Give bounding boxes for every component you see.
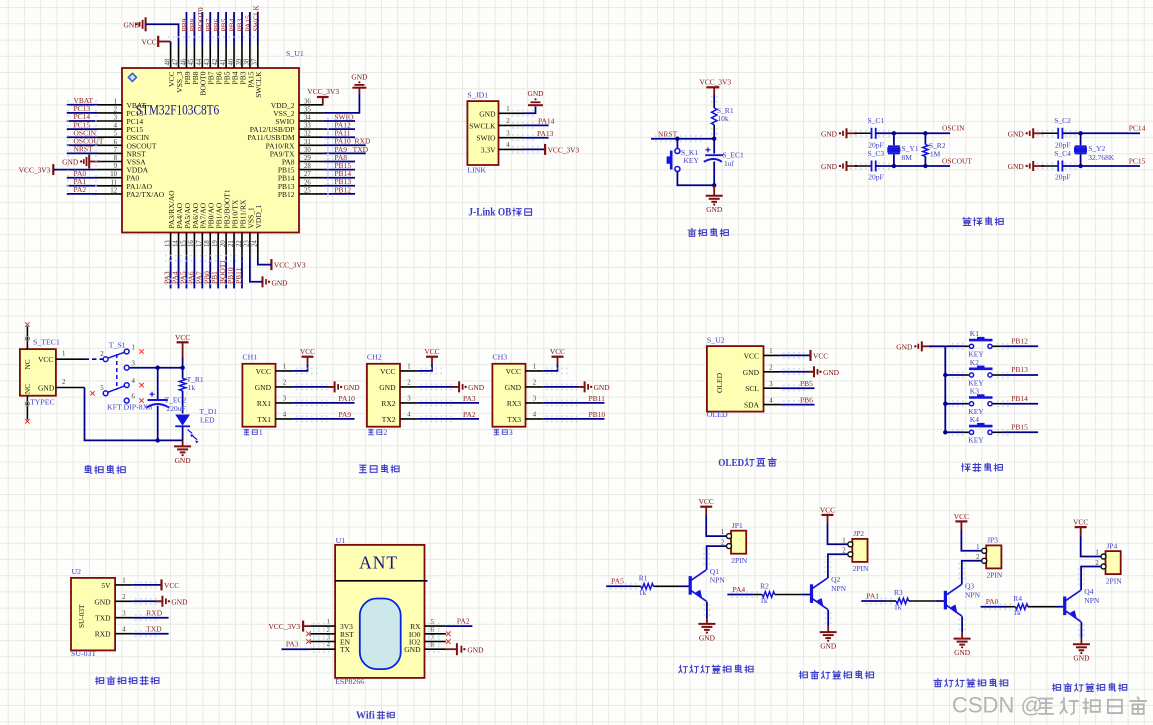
svg-text:1: 1 [407,364,410,371]
svg-text:PC15: PC15 [1129,156,1146,165]
svg-text:PB5: PB5 [800,379,813,388]
capacitor S_C1 20pF [855,132,872,134]
wire R2 to base [775,594,802,596]
svg-text:10k: 10k [717,114,729,123]
svg-text:S_C2: S_C2 [1054,116,1071,125]
svg-text:13: 13 [164,240,171,247]
pin 47 VSS_3 [178,45,180,69]
pin 29 PA8 [299,161,323,163]
svg-text:OLED: OLED [718,458,744,469]
svg-text:4: 4 [122,627,126,634]
designator serial label 2 [368,429,373,434]
wire VSS_1 [250,258,263,282]
wire net PB5 [225,12,227,45]
svg-text:OLED: OLED [715,372,724,393]
ic S_U1 STM32F103C8T6 body [122,68,299,233]
pin 41 PB5 [225,45,227,69]
svg-text:SWIO: SWIO [476,134,496,143]
title voice recognition module [96,677,104,684]
svg-text:21: 21 [228,240,235,247]
svg-text:1: 1 [506,106,509,113]
pin 4 TX3 [526,418,544,420]
pin 23 VSS_1 [249,233,251,259]
pin 37 SWCLK [257,45,259,69]
svg-text:PA4: PA4 [733,585,746,594]
svg-text:2: 2 [100,351,104,358]
pin 3 SCL [764,387,781,389]
wire PC15 ext [1129,165,1141,167]
wire net PB3 [241,12,243,45]
svg-text:GND: GND [896,342,913,351]
wire net PA9 [293,418,354,420]
pin 14 PA4/AO [178,233,180,259]
crystal S_Y2 32.768K [1080,133,1082,145]
svg-text:VCC: VCC [820,505,835,514]
no connect X EN [306,639,311,644]
wire pin3 to VCC node [129,367,182,369]
ground GND CH3 [578,386,585,388]
pin 8 VSSA [98,161,122,163]
wire net PA6 [193,258,195,288]
svg-text:44: 44 [196,58,203,65]
wire net SWCLK [257,12,259,45]
wire R3 to base [909,600,936,602]
svg-text:GND: GND [821,162,838,171]
no connect X pin6 [139,398,143,402]
svg-text:5: 5 [431,619,435,626]
wire VCC to pin48 [170,42,172,45]
selection marks bottom [165,255,242,257]
svg-text:1k: 1k [1013,608,1021,617]
svg-text:1: 1 [122,578,125,585]
svg-text:PC14: PC14 [1129,124,1146,133]
svg-text:46: 46 [180,58,187,65]
power VCC_3V3 (VDDA) [52,164,54,175]
power VCC_3V3 bottom (VDD_1) [270,259,272,270]
svg-text:SWCLK: SWCLK [251,5,260,32]
pin 12 PA2/TX/AO [98,193,122,195]
pin 16 PA6/AO [193,233,195,259]
pin 4 TX2 [400,418,418,420]
wire net PA9 [323,152,366,154]
wire bus to K3 [945,403,963,405]
pin 21 PB10/TX [233,233,235,259]
title 厨房灯照明电路 [679,665,688,673]
svg-text:24: 24 [252,240,259,247]
svg-text:20pF: 20pF [868,141,883,150]
svg-text:1: 1 [976,544,979,551]
wire key to bottom node [677,172,714,186]
pin 5 OSCIN [98,136,122,138]
wire emitter to GND [827,610,829,626]
svg-text:30: 30 [304,147,311,154]
wire net PA3 [170,258,172,288]
svg-text:48: 48 [164,58,171,65]
pin 1 GND [499,112,524,114]
svg-text:ANT: ANT [359,553,398,573]
title crystal circuit [963,217,971,225]
svg-text:2: 2 [122,594,126,601]
power VCC OLED [809,350,811,361]
wire OSCOUT [876,165,950,167]
svg-text:PA2: PA2 [463,410,476,419]
switch gang dashed link [116,354,118,390]
pin 1 3V3 [310,625,335,627]
svg-text:ESP8266: ESP8266 [335,677,364,686]
wire R4 to base [1028,606,1055,608]
wire net PA1 [67,185,98,187]
wire net PA3 [282,648,311,650]
svg-text:S_C1: S_C1 [868,116,885,125]
wire net PB1 [217,258,219,288]
wire VCC_3V3 to 3V3 [303,625,310,627]
svg-text:TX1: TX1 [257,415,271,424]
svg-text:29: 29 [304,155,311,162]
svg-text:31: 31 [304,139,311,146]
wire LED to GND rail [182,426,184,440]
svg-text:2PIN: 2PIN [853,564,869,573]
display S_U2 OLED body [707,346,764,412]
pin 3 EN [310,641,335,643]
wire net PA12 [323,128,355,130]
svg-text:GND: GND [594,383,611,392]
wire net PA2 [67,193,98,195]
svg-text:4: 4 [114,123,118,130]
wire net PC15 [67,128,98,130]
svg-text:VCC_3V3: VCC_3V3 [268,622,300,631]
designator serial label 1 [244,429,249,434]
svg-text:K1: K1 [970,329,979,338]
svg-text:19: 19 [212,240,219,247]
pin 39 PB3 [241,45,243,69]
wire net PA11 [323,136,355,138]
pin 4 RXD [115,633,133,635]
power VCC voice [160,579,162,590]
svg-text:SDA: SDA [744,401,760,410]
svg-text:14: 14 [172,240,179,247]
svg-text:GND: GND [344,383,361,392]
pin 1 VCC [526,370,544,372]
svg-text:PB13: PB13 [1011,365,1028,374]
svg-text:J-Link OB: J-Link OB [468,205,511,219]
connector CH2 body [367,364,400,427]
title reset circuit [688,228,696,236]
svg-text:3: 3 [533,396,537,403]
svg-text:1k: 1k [188,383,196,392]
transistor Q3 NPN [944,591,947,610]
svg-text:S_JD1: S_JD1 [467,91,488,100]
svg-text:JP2: JP2 [853,529,864,538]
svg-text:1k: 1k [760,596,768,605]
ground GND Q3 [961,633,963,638]
svg-text:CH1: CH1 [242,353,257,362]
wire net PB5 [780,387,814,389]
svg-text:1: 1 [283,364,286,371]
divider line [335,580,427,582]
wire CH1 VCC [293,365,307,371]
pin 3 RX3 [526,402,544,404]
pin 4 TX [310,648,335,650]
svg-text:VCC: VCC [699,497,714,506]
svg-text:K3: K3 [970,387,979,396]
ground GND CH1 [328,386,335,388]
connector JP4 2PIN body [1106,551,1121,574]
svg-text:12: 12 [110,187,117,194]
push button K2 KEY [969,373,973,377]
svg-text:2PIN: 2PIN [987,571,1003,580]
wire net PA0 [981,606,1006,608]
resistor R1 1k [641,584,654,590]
svg-text:8: 8 [431,642,435,649]
svg-text:16: 16 [188,240,195,247]
junction crystal top [892,131,896,135]
svg-text:SWCLK: SWCLK [254,71,263,98]
wire JD1 pin1 to GND [523,107,536,114]
svg-text:KFT DIP-8X8: KFT DIP-8X8 [107,403,152,412]
wire JP4 pin2 to collector [1081,567,1101,591]
wire net PA5 [606,585,631,587]
wire net PA2 [418,418,479,420]
wire net PA14 [523,124,549,126]
designator serial label 3 [494,429,499,434]
svg-text:GND: GND [38,384,55,393]
svg-text:VCC: VCC [744,351,759,360]
svg-text:1M: 1M [930,150,941,159]
svg-text:Q4: Q4 [1084,587,1093,596]
wire net NRST [67,152,98,154]
pin 10 PA0 [98,177,122,179]
wire JP2 pin2 to collector [828,554,848,578]
svg-text:32: 32 [304,131,311,138]
svg-text:TXD: TXD [95,614,111,623]
svg-text:PA10: PA10 [339,394,356,403]
svg-text:PA0: PA0 [986,597,999,606]
svg-text:NPN: NPN [1084,596,1100,605]
pin 1 VCC [764,354,781,356]
capacitor S_C2 20pF [1042,132,1059,134]
svg-text:K4: K4 [970,415,979,424]
selection marks right [327,118,329,198]
title key circuit [961,464,970,472]
svg-text:OLED: OLED [707,410,728,419]
svg-text:STM32F103C8T6: STM32F103C8T6 [136,103,220,119]
svg-text:PB11: PB11 [589,394,606,403]
capacitor S_C3 20pF [855,165,872,167]
wire voice GND [133,600,161,602]
svg-text:45: 45 [188,58,195,65]
title power circuit [85,465,92,473]
wire R1 to node [713,125,715,130]
svg-text:GND: GND [175,456,192,465]
wire K1 to net [993,345,1003,347]
junction R2 top [923,131,927,135]
svg-text:GND: GND [62,158,79,167]
junction EC2 bottom [156,438,160,442]
svg-text:S_C4: S_C4 [1054,149,1071,158]
svg-text:NPN: NPN [831,584,847,593]
title 浴室灯照明电路 [799,671,807,678]
svg-text:RXD: RXD [146,609,162,618]
svg-text:OSCOUT: OSCOUT [942,156,972,165]
wire CH1 GND [293,386,333,388]
svg-text:GND: GND [467,646,484,655]
svg-text:1: 1 [259,428,263,437]
pin 22 PB11/RX [241,233,243,259]
wire CH2 VCC [418,365,432,371]
svg-text:R3: R3 [894,588,903,597]
title 卧室灯照明电路 [1053,684,1061,691]
svg-text:VCC_3V3: VCC_3V3 [700,77,732,86]
wire R1 to base [653,585,680,587]
pin 4 TX1 [276,418,294,420]
pin 32 PA11/USB/DM [299,136,323,138]
pin 17 PA7/AO [201,233,203,259]
pin 24 VDD_1 [257,233,259,259]
connector CH1 body [242,364,275,427]
svg-text:28: 28 [304,163,311,170]
connector S_JD1 body [467,101,498,165]
pin 6 OSCOUT [98,144,122,146]
pin 1 5V [115,584,133,586]
wire JP1 pin2 to collector [707,546,727,570]
wire net PA2 [446,625,473,627]
wire PC15 [1062,165,1128,167]
wire OLED VCC [780,354,810,356]
svg-text:4: 4 [407,412,411,419]
connector JP3 2PIN body [986,545,1001,568]
svg-text:PB11: PB11 [234,267,243,284]
svg-text:2: 2 [327,627,331,634]
pin 3 TXD [115,617,133,619]
svg-text:23: 23 [244,240,251,247]
svg-text:GND: GND [820,642,837,651]
wire PC14 [1062,132,1128,134]
svg-text:1k: 1k [639,588,647,597]
svg-text:1k: 1k [894,603,902,612]
svg-text:Q1: Q1 [710,567,719,576]
svg-text:17: 17 [196,240,203,247]
svg-text:VCC: VCC [164,581,179,590]
push button K3 KEY [969,402,973,406]
wire net NRST [651,138,714,140]
svg-text:7: 7 [431,635,435,642]
svg-text:PA5: PA5 [611,577,624,586]
svg-text:GND: GND [272,278,289,287]
svg-text:TXD: TXD [146,625,162,634]
svg-text:CH2: CH2 [367,353,382,362]
svg-text:10: 10 [110,171,117,178]
svg-text:GND: GND [505,383,522,392]
push button K1 KEY [969,344,973,348]
svg-text:GND: GND [171,597,188,606]
pin 38 PA15 [249,45,251,69]
wire PC14 ext [1129,132,1141,134]
pin 3 PC14 [98,120,122,122]
svg-text:38: 38 [244,58,251,65]
svg-text:1: 1 [769,348,772,355]
svg-text:26: 26 [304,179,311,186]
svg-text:PA3: PA3 [286,640,299,649]
ground GND wifi [456,643,458,655]
junction crystal bottom [1078,164,1082,168]
svg-text:VCC: VCC [1073,518,1088,527]
push button K4 KEY [969,430,973,434]
wire net PA4 [727,594,752,596]
svg-text:11: 11 [110,179,117,186]
wire net TXD [133,633,169,635]
no connect X IO2 [446,639,451,644]
svg-text:VCC: VCC [380,367,395,376]
no connect X IO0 [446,631,451,636]
svg-text:39: 39 [236,58,243,65]
ground GND reset [713,185,715,195]
svg-text:22: 22 [236,240,243,247]
svg-text:2PIN: 2PIN [1106,576,1122,585]
svg-text:RX2: RX2 [381,399,395,408]
pin 2 RST [310,633,335,635]
svg-text:TX2: TX2 [382,415,396,424]
svg-text:S_TEC1: S_TEC1 [33,337,60,346]
svg-text:4: 4 [533,412,537,419]
svg-text:PA14: PA14 [538,117,555,126]
svg-text:4: 4 [132,378,136,385]
svg-text:RX1: RX1 [257,399,271,408]
svg-text:GND: GND [823,368,840,377]
pin 45 PB8 [193,45,195,69]
wire pin2 down to rail [85,388,183,441]
svg-text:S_U1: S_U1 [286,49,304,58]
pin 33 PA12/USB/DP [299,128,323,130]
svg-text:GND: GND [379,383,396,392]
pin 4 SDA [764,404,781,406]
svg-text:1: 1 [327,619,330,626]
wire net PB8 [193,12,195,45]
pin 2 GND [276,386,294,388]
wire net BOOT1 [225,258,227,288]
svg-text:NPN: NPN [965,590,981,599]
transistor Q4 NPN [1063,597,1066,616]
pin 25 PB12 [299,193,323,195]
svg-text:GND: GND [351,73,368,82]
svg-text:2PIN: 2PIN [731,556,747,565]
svg-text:VCC_3V3: VCC_3V3 [274,261,306,270]
svg-text:3: 3 [407,396,411,403]
capacitor S_C4 20pF [1042,165,1059,167]
pin 1 VBAT [98,104,122,106]
svg-text:3: 3 [122,611,126,618]
svg-text:GND: GND [527,89,544,98]
svg-text:VCC_3V3: VCC_3V3 [19,166,51,175]
wire net PB13 [323,185,355,187]
svg-text:GND: GND [255,383,272,392]
svg-text:LED: LED [200,415,215,424]
svg-text:K2: K2 [970,358,979,367]
svg-text:JP1: JP1 [732,521,743,530]
svg-text:3: 3 [132,360,136,367]
wire OLED GND [780,371,812,373]
pin 1 VCC [276,370,294,372]
svg-text:R1: R1 [639,573,648,582]
pin 18 PB0/AO [209,233,211,259]
pin 36 VDD_2 [299,104,323,106]
pin 7 NRST [98,152,122,154]
svg-text:15: 15 [180,240,187,247]
pin 20 PB2/BOOT1 [225,233,227,259]
junction bus K4 [943,430,947,434]
connector JP1 2PIN body [731,531,746,554]
wire net PA8 [323,161,355,163]
resistor R3 1k [896,598,909,604]
